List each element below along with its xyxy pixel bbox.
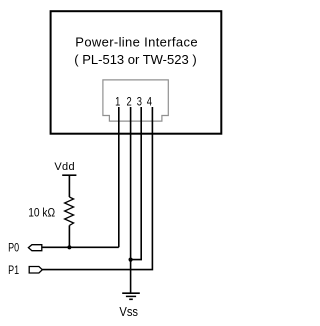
wire Vdd bar to resistor <box>68 175 70 197</box>
resistor R1 10 kOhm <box>65 197 74 225</box>
connector J1 (modular jack outline) <box>103 80 168 121</box>
svg-text:3: 3 <box>137 95 142 108</box>
wire pin4 elbow P1 line <box>42 107 152 270</box>
port symbol P0 <box>28 245 41 251</box>
wire pin3 elbow to node GND <box>131 107 142 260</box>
svg-text:P1: P1 <box>8 264 19 278</box>
svg-text:( PL-513 or TW-523 ): ( PL-513 or TW-523 ) <box>74 52 196 67</box>
port symbol P1 <box>29 267 42 274</box>
wire pin2 to ground <box>130 107 132 293</box>
svg-text:1: 1 <box>115 95 120 108</box>
svg-text:10 kΩ: 10 kΩ <box>28 207 55 220</box>
power symbol Vdd (bar) <box>62 174 76 176</box>
wire pin1 to P0 line <box>118 107 120 247</box>
power-line interface box U1 <box>51 11 222 134</box>
svg-text:Vss: Vss <box>119 304 138 319</box>
svg-text:Power-line Interface: Power-line Interface <box>75 35 198 50</box>
svg-text:Vdd: Vdd <box>54 161 74 173</box>
junction node A (dot) <box>67 245 71 249</box>
svg-text:2: 2 <box>126 95 131 108</box>
junction node GND (dot) <box>129 258 133 262</box>
wire resistor to node A <box>68 225 70 247</box>
ground symbol Vss <box>122 293 140 299</box>
wire P0 line <box>42 246 119 248</box>
svg-text:4: 4 <box>147 95 152 108</box>
svg-text:P0: P0 <box>8 241 19 255</box>
